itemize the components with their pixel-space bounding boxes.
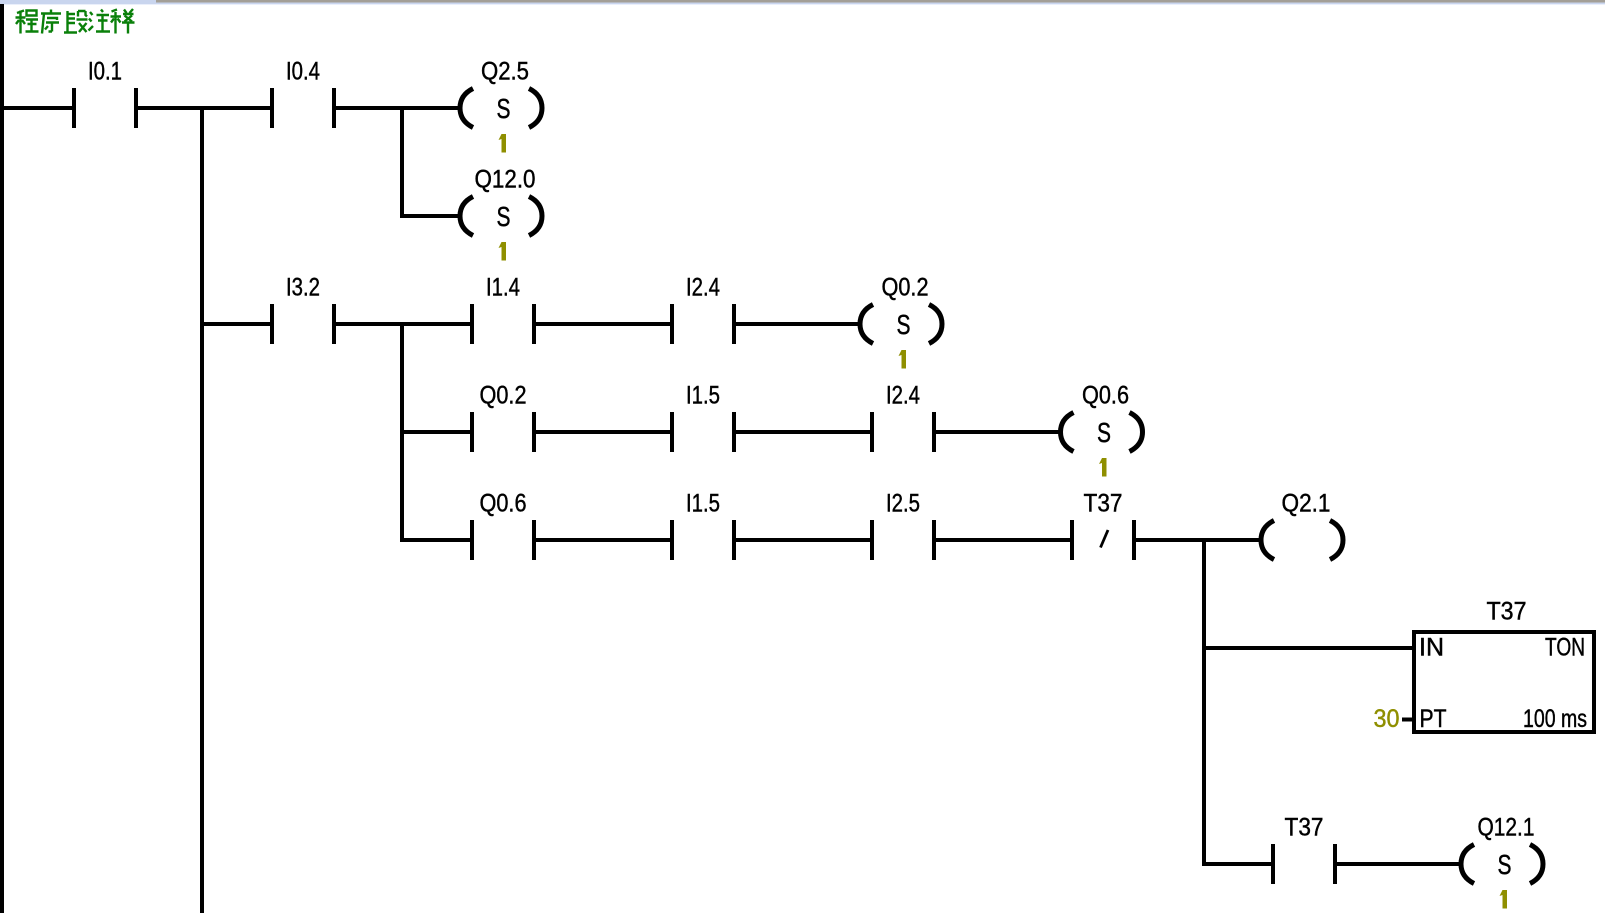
contact I0.1 <box>72 58 138 129</box>
svg-text:S: S <box>497 201 511 232</box>
svg-text:Q12.0: Q12.0 <box>475 166 536 194</box>
wire bottom row: T37 to coil Q12.1 <box>1337 862 1460 866</box>
svg-text:Q12.1: Q12.1 <box>1478 814 1535 842</box>
svg-text:S: S <box>497 93 511 124</box>
value 1 below Q12.1 <box>1500 890 1508 909</box>
wire branch2: I2.4 to coil Q0.6 <box>936 430 1060 434</box>
wire branch3: sub-rail to Q0.6 contact <box>404 538 470 542</box>
svg-text:30: 30 <box>1374 705 1400 733</box>
coil Q12.0 <box>460 166 542 236</box>
wire to coil Q12.0 <box>400 214 460 218</box>
contact T37nc <box>1070 490 1136 561</box>
svg-text:I2.5: I2.5 <box>886 490 920 518</box>
coil Q0.6 <box>1061 382 1143 452</box>
timer box T37 TON <box>1414 598 1594 734</box>
svg-text:IN: IN <box>1419 634 1444 662</box>
contact T37b <box>1271 814 1337 885</box>
svg-text:100 ms: 100 ms <box>1523 705 1587 733</box>
wire rung1: rail to I0.1 <box>0 106 72 110</box>
wire branch3: I1.5 to I2.5 <box>736 538 870 542</box>
network comment text: 程序段注释 (green) <box>16 9 135 34</box>
svg-text:TON: TON <box>1545 634 1585 662</box>
contact Q0.6c <box>470 490 536 561</box>
svg-text:I1.5: I1.5 <box>686 490 720 518</box>
coil Q2.5 <box>460 58 542 128</box>
svg-text:Q2.1: Q2.1 <box>1282 490 1331 518</box>
wire branch2: Q0.2 to I1.5 <box>536 430 670 434</box>
rung2 sub-rail down to lower branches <box>400 322 404 542</box>
svg-text:T37: T37 <box>1487 598 1527 626</box>
svg-text:Q0.6: Q0.6 <box>480 490 527 518</box>
contact I2.4 <box>670 274 736 345</box>
PT input tick wire <box>1402 718 1412 722</box>
svg-text:S: S <box>897 309 911 340</box>
wire rung1: I0.4 to coil Q2.5 <box>336 106 460 110</box>
svg-text:Q2.5: Q2.5 <box>481 58 529 86</box>
svg-text:Q0.6: Q0.6 <box>1082 382 1129 410</box>
left power rail <box>0 4 4 913</box>
wire rung2: I3.2 to I1.4 <box>336 322 470 326</box>
svg-text:I1.5: I1.5 <box>686 382 720 410</box>
wire rung2: I2.4 to coil Q0.2 <box>736 322 860 326</box>
svg-text:S: S <box>1097 417 1111 448</box>
rung2 power rail (vertical from rung1 junction) <box>200 106 204 913</box>
value 1 below Q12.0 <box>499 242 507 261</box>
value 1 below Q0.2 <box>899 350 907 369</box>
wire rung2: I1.4 to I2.4 <box>536 322 670 326</box>
svg-text:I2.4: I2.4 <box>886 382 920 410</box>
junction rail down to timer and set row <box>1202 538 1206 866</box>
contact I2.4b <box>870 382 936 453</box>
svg-text:I0.4: I0.4 <box>286 58 320 86</box>
wire branch3: I2.5 to T37 <box>936 538 1070 542</box>
wire branch3: Q0.6 to I1.5 <box>536 538 670 542</box>
svg-text:S: S <box>1498 849 1512 880</box>
branch wire down to Q12.0 row <box>400 106 404 218</box>
wire rung1: I0.1 to I0.4 <box>138 106 270 110</box>
coil Q2.1 <box>1261 490 1343 560</box>
svg-text:Q0.2: Q0.2 <box>882 274 929 302</box>
wire branch2: I1.5 to I2.4 <box>736 430 870 434</box>
svg-text:PT: PT <box>1420 705 1447 733</box>
svg-text:I3.2: I3.2 <box>286 274 320 302</box>
contact I1.5a <box>670 382 736 453</box>
wire branch3: T37 to coil Q2.1 <box>1136 538 1261 542</box>
contact I1.4 <box>470 274 536 345</box>
contact I1.5b <box>670 490 736 561</box>
contact I0.4 <box>270 58 336 129</box>
wire branch2: sub-rail to Q0.2 contact <box>404 430 470 434</box>
svg-text:T37: T37 <box>1285 814 1324 842</box>
svg-text:Q0.2: Q0.2 <box>480 382 527 410</box>
value 1 below Q2.5 <box>499 134 507 153</box>
svg-text:I0.1: I0.1 <box>88 58 122 86</box>
window top border strip <box>0 0 1605 5</box>
svg-text:I1.4: I1.4 <box>486 274 520 302</box>
contact I2.5 <box>870 490 936 561</box>
contact Q0.2c <box>470 382 536 453</box>
wire rung2: rail to I3.2 <box>204 322 270 326</box>
svg-text:I2.4: I2.4 <box>686 274 720 302</box>
wire bottom row: rail to T37 contact <box>1202 862 1271 866</box>
coil Q0.2 <box>860 274 942 344</box>
svg-text:T37: T37 <box>1084 490 1123 518</box>
contact I3.2 <box>270 274 336 345</box>
wire to timer T37 IN <box>1202 646 1412 650</box>
value 1 below Q0.6 <box>1099 458 1107 477</box>
coil Q12.1 <box>1461 814 1543 884</box>
